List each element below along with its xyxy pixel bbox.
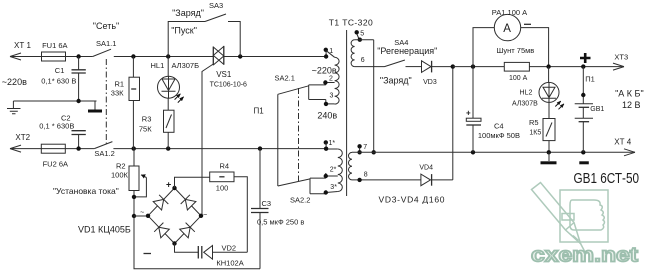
- svg-text:240в: 240в: [317, 110, 337, 120]
- terminal XT4: [614, 138, 635, 156]
- chassis ground bar: [88, 101, 102, 111]
- potentiometer R2: [111, 149, 146, 218]
- diode VD3: [415, 61, 453, 86]
- switch SA2.1: [275, 73, 326, 104]
- svg-text:~: ~: [140, 210, 144, 217]
- junction R3 bottom: [166, 146, 170, 150]
- resistor R4: [175, 161, 248, 252]
- switch SA3 bypass branch: [168, 1, 240, 57]
- svg-text:0,1* 630 В: 0,1* 630 В: [41, 76, 76, 85]
- wire VD3/VD4 cathode join: [452, 67, 454, 180]
- svg-text:2: 2: [329, 76, 333, 83]
- svg-text:C3: C3: [262, 199, 272, 208]
- ground symbol under R5: [541, 152, 557, 163]
- junction HL2 tap: [546, 64, 550, 68]
- svg-text:R4: R4: [220, 161, 230, 170]
- svg-text:Шунт 75мв: Шунт 75мв: [497, 46, 535, 55]
- svg-text:R2: R2: [116, 161, 126, 170]
- capacitor C3: [251, 149, 304, 269]
- junction ammeter/C4 tap: [471, 64, 475, 68]
- junction VS1 right: [238, 54, 242, 58]
- svg-text:VS1: VS1: [216, 70, 232, 79]
- label plus: [580, 53, 591, 63]
- junction R5 bottom: [547, 150, 551, 154]
- svg-text:~220в: ~220в: [312, 65, 337, 75]
- svg-text:7: 7: [363, 144, 367, 151]
- junction 5-7 connector on rail: [372, 150, 376, 154]
- svg-text:~: ~: [203, 212, 207, 219]
- svg-text:0,5 мкФ 250 в: 0,5 мкФ 250 в: [257, 217, 304, 226]
- svg-text:"Установка тока": "Установка тока": [53, 186, 119, 196]
- junction C1/C2 midpoint: [76, 99, 80, 103]
- resistor R5: [529, 118, 555, 153]
- svg-text:SA3: SA3: [209, 1, 223, 10]
- thyristor VS1: [202, 46, 247, 216]
- svg-text:VD4: VD4: [419, 165, 433, 172]
- svg-text:SA2.1: SA2.1: [275, 73, 295, 82]
- junction 7 terminal on rail: [357, 150, 361, 154]
- junction lower rail end: [324, 147, 328, 151]
- svg-text:A: A: [503, 23, 511, 35]
- svg-text:cxem.net: cxem.net: [531, 245, 638, 267]
- svg-text:SA2.2: SA2.2: [290, 196, 310, 205]
- svg-text:1*: 1*: [329, 140, 336, 147]
- junction R1 tap: [131, 54, 135, 58]
- svg-text:"А К Б": "А К Б": [615, 89, 644, 99]
- wire 5-7 connector: [373, 40, 375, 153]
- wire negative rail: [352, 151, 635, 153]
- junction C2 bottom: [76, 146, 80, 150]
- svg-text:5: 5: [360, 30, 364, 37]
- svg-text:0,1 * 630В: 0,1 * 630В: [39, 121, 74, 130]
- terminal XT1: [10, 41, 42, 60]
- ammeter PA1: [473, 8, 549, 66]
- diode VD4: [419, 165, 452, 186]
- mechanical link SA2: [298, 88, 300, 184]
- switch SA1.1: [93, 39, 134, 57]
- junction R1/R2: [132, 146, 136, 150]
- svg-text:"Сеть": "Сеть": [93, 21, 119, 31]
- svg-text:"Заряд": "Заряд": [172, 8, 204, 18]
- secondary winding 5-6: [351, 30, 384, 67]
- junction C4 bottom: [471, 150, 475, 154]
- primary winding 1-2-3: [323, 48, 339, 107]
- svg-text:100К: 100К: [111, 170, 129, 179]
- wire to bridge AC left: [134, 215, 148, 217]
- junction bridge left branch: [132, 214, 136, 218]
- switch SA4: [377, 38, 437, 86]
- terminal XT2: [10, 133, 41, 152]
- junction C1 tap: [76, 54, 80, 58]
- capacitor C1: [41, 57, 86, 102]
- svg-text:ХТ 4: ХТ 4: [614, 138, 631, 147]
- mechanical link SA1: [105, 59, 107, 146]
- svg-text:+: +: [166, 180, 171, 190]
- junction HL1/SA3 tap: [166, 54, 170, 58]
- bridge rectifier VD1: [78, 180, 207, 254]
- svg-text:VD2: VD2: [222, 243, 237, 252]
- fuse FU2: [41, 144, 68, 168]
- svg-text:75К: 75К: [139, 124, 152, 133]
- svg-text:П1: П1: [585, 74, 595, 83]
- svg-text:100мкФ 50В: 100мкФ 50В: [478, 131, 520, 140]
- svg-text:ХТ3: ХТ3: [614, 52, 628, 61]
- svg-text:1К5: 1К5: [529, 129, 541, 136]
- junction GB1 bottom: [581, 150, 585, 154]
- svg-text:FU2 6А: FU2 6А: [43, 159, 68, 168]
- svg-text:VD1 КЦ405Б: VD1 КЦ405Б: [78, 225, 131, 235]
- svg-text:~220в: ~220в: [2, 77, 27, 87]
- wire top rail mid: [133, 56, 326, 58]
- terminal XT3: [613, 52, 628, 70]
- capacitor C4: [466, 67, 520, 153]
- svg-text:SA1.2: SA1.2: [94, 149, 114, 158]
- svg-text:VD3-VD4 Д160: VD3-VD4 Д160: [379, 195, 445, 205]
- svg-text:АЛ307В: АЛ307В: [512, 101, 538, 108]
- svg-text:3: 3: [330, 93, 334, 100]
- svg-text:SA1.1: SA1.1: [96, 39, 116, 48]
- wire lower mains rail: [65, 148, 326, 150]
- svg-text:"Заряд": "Заряд": [380, 76, 412, 86]
- svg-text:КН102А: КН102А: [216, 258, 243, 267]
- watermark cxem.net logo: [531, 183, 638, 267]
- svg-text:GB1 6СТ-50: GB1 6СТ-50: [574, 170, 640, 187]
- svg-text:VD3: VD3: [423, 79, 437, 86]
- junction GB1 tap: [581, 64, 585, 68]
- junction top rail end: [324, 54, 328, 58]
- wire ground rail: [13, 100, 96, 102]
- svg-text:3*: 3*: [330, 184, 337, 191]
- svg-text:1: 1: [329, 48, 333, 55]
- svg-text:12 В: 12 В: [622, 100, 641, 110]
- capacitor C2: [39, 113, 86, 148]
- svg-text:П1: П1: [254, 107, 265, 116]
- svg-text:HL2: HL2: [520, 90, 533, 97]
- wire positive rail: [453, 66, 624, 68]
- junction cathode join top: [451, 64, 455, 68]
- svg-text:ХТ2: ХТ2: [15, 133, 30, 142]
- diode VD2 (dinistor): [175, 243, 248, 267]
- svg-text:100: 100: [216, 184, 229, 193]
- svg-text:+: +: [466, 109, 471, 118]
- transformer core: [346, 30, 348, 196]
- svg-text:8: 8: [364, 172, 368, 179]
- svg-text:C4: C4: [494, 122, 504, 131]
- svg-text:"Регенерация": "Регенерация": [377, 46, 437, 56]
- svg-text:ТС106-10-6: ТС106-10-6: [210, 82, 247, 89]
- svg-text:33К: 33К: [111, 88, 124, 97]
- switch SA1.2: [94, 142, 115, 159]
- junction C3 top: [258, 146, 262, 150]
- fuse FU1: [42, 41, 68, 61]
- shunt resistor: [497, 46, 535, 82]
- svg-text:FU1 6А: FU1 6А: [42, 41, 67, 50]
- svg-text:"Пуск": "Пуск": [171, 26, 197, 36]
- svg-text:100 А: 100 А: [509, 75, 528, 82]
- secondary winding 7-8: [348, 144, 420, 182]
- svg-text:C1: C1: [55, 66, 65, 75]
- svg-text:РА1 100 А: РА1 100 А: [492, 8, 527, 17]
- LED HL2: [512, 67, 564, 119]
- primary winding 1*-2*-3*: [324, 140, 343, 195]
- svg-text:Т1 ТС-320: Т1 ТС-320: [329, 17, 373, 27]
- svg-text:2*: 2*: [330, 167, 337, 174]
- switch SA2.2: [278, 173, 326, 205]
- connector П1 / battery GB1: [575, 67, 605, 153]
- LED HL1: [151, 57, 200, 111]
- wire top rail left: [66, 56, 93, 58]
- wire SA2 common: [277, 94, 279, 186]
- svg-text:R1: R1: [115, 79, 125, 88]
- svg-text:R5: R5: [529, 118, 539, 127]
- resistor R3: [139, 110, 174, 148]
- svg-text:GB1: GB1: [590, 106, 604, 113]
- svg-text:HL1: HL1: [151, 61, 165, 70]
- svg-text:АЛ307Б: АЛ307Б: [172, 61, 200, 70]
- svg-text:R3: R3: [142, 114, 152, 123]
- svg-text:ХТ 1: ХТ 1: [14, 41, 31, 50]
- resistor R1: [111, 57, 140, 149]
- battery minus mark: [579, 161, 589, 164]
- wire bottom return: [134, 217, 260, 268]
- earth ground symbol: [7, 101, 21, 114]
- svg-text:6: 6: [361, 57, 365, 64]
